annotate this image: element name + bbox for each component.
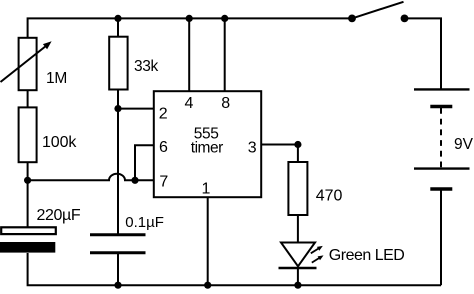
svg-text:timer: timer bbox=[191, 140, 223, 157]
svg-text:4: 4 bbox=[185, 95, 194, 112]
svg-text:1M: 1M bbox=[46, 70, 67, 87]
svg-text:Green LED: Green LED bbox=[329, 247, 405, 264]
svg-text:6: 6 bbox=[159, 139, 168, 156]
svg-text:8: 8 bbox=[221, 95, 230, 112]
svg-text:9V: 9V bbox=[454, 136, 474, 153]
svg-text:470: 470 bbox=[316, 188, 343, 205]
svg-text:100k: 100k bbox=[42, 134, 77, 151]
svg-text:7: 7 bbox=[159, 174, 168, 191]
svg-text:3: 3 bbox=[248, 140, 257, 157]
svg-text:0.1µF: 0.1µF bbox=[125, 214, 164, 231]
svg-text:220µF: 220µF bbox=[37, 207, 81, 224]
svg-text:2: 2 bbox=[159, 106, 168, 123]
svg-text:33k: 33k bbox=[134, 58, 158, 75]
svg-text:1: 1 bbox=[202, 181, 211, 198]
